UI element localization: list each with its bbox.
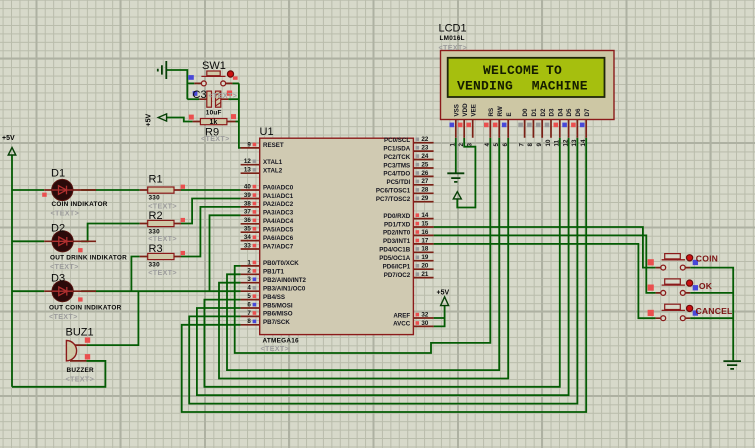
button OK <box>661 279 693 295</box>
svg-text:+5V: +5V <box>146 114 153 127</box>
svg-text:D2: D2 <box>51 223 65 235</box>
svg-text:29: 29 <box>421 195 428 202</box>
svg-text:XTAL2: XTAL2 <box>263 168 283 175</box>
svg-text:38: 38 <box>244 200 251 207</box>
resistor R1 <box>148 187 174 193</box>
svg-text:30: 30 <box>421 320 428 327</box>
svg-text:8: 8 <box>247 318 251 325</box>
buzzer BUZ1 <box>66 341 76 361</box>
microcontroller U1 body <box>260 138 414 334</box>
LED D1 <box>52 179 73 200</box>
svg-text:E: E <box>506 112 513 116</box>
pin state indicators: buttons <box>648 259 654 265</box>
wire: C3 right to reset node <box>228 98 239 100</box>
svg-text:9: 9 <box>536 143 543 147</box>
CANCEL button pin stubs <box>656 317 691 319</box>
svg-text:PC3/TMS: PC3/TMS <box>383 162 410 169</box>
svg-text:7: 7 <box>518 143 525 147</box>
svg-text:<TEXT>: <TEXT> <box>51 209 80 218</box>
svg-text:15: 15 <box>421 220 428 227</box>
svg-text:D1: D1 <box>531 108 538 116</box>
wire: D3 cathode row to U1 pin 4 <box>81 290 240 292</box>
svg-text:PB1/T1: PB1/T1 <box>263 269 285 276</box>
svg-text:D3: D3 <box>51 273 65 285</box>
svg-text:16: 16 <box>421 229 428 236</box>
svg-text:PB2/AIN0/INT2: PB2/AIN0/INT2 <box>263 277 307 284</box>
svg-text:VDD: VDD <box>462 103 469 117</box>
svg-text:PD3/INT1: PD3/INT1 <box>383 238 411 245</box>
svg-text:AVCC: AVCC <box>393 321 411 328</box>
svg-text:SW1: SW1 <box>202 60 226 72</box>
svg-text:2: 2 <box>458 143 465 147</box>
pin state indicators: wires top area <box>188 75 194 80</box>
wire: U1 PB0 pin1 to bus <box>235 138 491 353</box>
svg-text:28: 28 <box>421 187 428 194</box>
svg-text:1: 1 <box>247 259 251 266</box>
svg-text:9: 9 <box>247 141 251 148</box>
wire: R9 right to reset node <box>236 121 239 123</box>
svg-text:<TEXT>: <TEXT> <box>261 344 290 353</box>
svg-text:LCD1: LCD1 <box>439 23 467 35</box>
svg-text:<TEXT>: <TEXT> <box>148 234 177 243</box>
svg-text:20: 20 <box>421 263 428 270</box>
svg-text:10uF: 10uF <box>206 109 222 116</box>
svg-text:13: 13 <box>571 139 578 146</box>
COIN button pin stubs <box>656 267 691 269</box>
svg-text:PA5/ADC5: PA5/ADC5 <box>263 227 294 234</box>
svg-text:D3: D3 <box>549 108 556 116</box>
wire: U1 PD2 pin16 to OK button <box>434 235 656 293</box>
pin state indicators: LED rows <box>42 193 47 197</box>
svg-text:11: 11 <box>554 139 561 146</box>
svg-text:PC4/TDO: PC4/TDO <box>383 171 410 178</box>
svg-text:RESET: RESET <box>263 142 284 149</box>
wire: R1 to U1 pin 40 <box>181 189 241 191</box>
svg-text:<TEXT>: <TEXT> <box>49 312 78 321</box>
svg-text:24: 24 <box>421 153 428 160</box>
svg-text:6: 6 <box>502 143 509 147</box>
svg-text:VEE: VEE <box>470 104 477 116</box>
svg-text:PD6/ICP1: PD6/ICP1 <box>383 264 411 271</box>
svg-text:VSS: VSS <box>453 104 460 116</box>
wire: buttons right rail to ground <box>690 268 733 361</box>
svg-text:19: 19 <box>421 254 428 261</box>
switch SW1 <box>201 71 233 86</box>
wire: SW1 right contact to reset node <box>232 82 239 84</box>
svg-text:COIN INDIKATOR: COIN INDIKATOR <box>52 201 108 208</box>
svg-text:C3: C3 <box>193 89 207 101</box>
C3 pin stubs <box>199 98 228 100</box>
power +5V (below LCD, VDD) <box>453 192 461 199</box>
U1 left pin stubs <box>241 148 260 325</box>
svg-text:23: 23 <box>421 145 428 152</box>
svg-text:PA4/ADC4: PA4/ADC4 <box>263 218 294 225</box>
svg-text:<TEXT>: <TEXT> <box>201 134 230 143</box>
svg-text:37: 37 <box>244 209 251 216</box>
power +5V (left of R9, pointing left) <box>158 114 166 121</box>
D3 pin stubs <box>44 290 96 292</box>
svg-text:17: 17 <box>421 237 428 244</box>
svg-text:PB7/SCK: PB7/SCK <box>263 319 290 326</box>
svg-text:R1: R1 <box>149 173 163 185</box>
power +5V (AVCC/AREF) <box>441 297 449 306</box>
LCD screen <box>448 58 605 97</box>
svg-text:D2: D2 <box>540 108 547 116</box>
wire: U1 PB4 pin5 to bus to LCD D4 <box>204 138 559 387</box>
svg-text:14: 14 <box>421 212 428 219</box>
svg-text:33: 33 <box>244 242 251 249</box>
LCD pin numbers and state squares <box>450 123 588 147</box>
U1 pin numbers and state squares (right side) <box>416 136 429 327</box>
OK button pin stubs <box>656 292 691 294</box>
svg-text:39: 39 <box>244 192 251 199</box>
svg-text:32: 32 <box>421 311 428 318</box>
svg-text:3: 3 <box>467 143 474 147</box>
svg-text:VENDING: VENDING <box>457 79 513 94</box>
svg-text:34: 34 <box>244 234 251 241</box>
svg-text:D0: D0 <box>522 108 529 116</box>
svg-text:22: 22 <box>421 136 428 143</box>
button COIN <box>661 254 693 270</box>
svg-text:36: 36 <box>244 217 251 224</box>
wire: rail branch to D1 anode <box>12 189 44 191</box>
buzzer pin stubs <box>70 345 86 361</box>
wire: LCD VDD pin2 to +5V arrow <box>457 138 475 208</box>
D1 pin stubs <box>44 189 96 191</box>
svg-text:<TEXT>: <TEXT> <box>439 43 468 52</box>
svg-text:U1: U1 <box>260 126 274 138</box>
svg-text:OUT COIN INDIKATOR: OUT COIN INDIKATOR <box>49 304 122 311</box>
svg-text:CANCEL: CANCEL <box>696 306 733 316</box>
wire: rail branch to D3 anode <box>12 290 44 292</box>
wire: +5V arrow to R9 left <box>167 118 193 122</box>
svg-text:12: 12 <box>244 158 251 165</box>
wire: reset node vertical to U1 pin 9 <box>239 83 241 147</box>
svg-text:D1: D1 <box>51 168 65 180</box>
svg-text:PA2/ADC2: PA2/ADC2 <box>263 201 294 208</box>
svg-text:18: 18 <box>421 246 428 253</box>
resistor R2 <box>148 220 174 226</box>
svg-text:AREF: AREF <box>393 312 410 319</box>
U1 pin numbers and state squares (left side) <box>244 141 256 325</box>
svg-text:LM016L: LM016L <box>440 35 465 42</box>
button CANCEL <box>661 304 693 320</box>
wire: AVCC to +5V <box>434 306 445 327</box>
svg-text:COIN: COIN <box>696 254 718 264</box>
wire: R3 right jog up to U1 pin 38 <box>181 207 241 257</box>
wire: buzzer bottom pin <box>86 360 105 362</box>
D2 pin stubs <box>44 240 96 242</box>
svg-text:PD0/RXD: PD0/RXD <box>383 213 410 220</box>
svg-text:1: 1 <box>450 143 457 147</box>
wire: D1 cathode to R1 <box>81 189 140 191</box>
svg-text:27: 27 <box>421 178 428 185</box>
svg-text:PB4/SS: PB4/SS <box>263 294 285 301</box>
LED D2 <box>52 231 73 252</box>
svg-text:21: 21 <box>421 271 428 278</box>
svg-text:PA6/ADC6: PA6/ADC6 <box>263 235 294 242</box>
R3 pin stubs <box>140 256 181 258</box>
capacitor C3 <box>207 91 221 107</box>
svg-text:R2: R2 <box>149 210 163 222</box>
resistor R9 <box>200 119 227 127</box>
svg-text:MACHINE: MACHINE <box>532 79 588 94</box>
svg-text:25: 25 <box>421 161 428 168</box>
LCD pin labels (rotated) <box>453 103 590 117</box>
svg-text:40: 40 <box>244 183 251 190</box>
wire: +5V left rail vertical <box>11 155 13 387</box>
wire: U1 PB2 pin3 to bus to LCD E <box>219 138 508 379</box>
svg-text:D7: D7 <box>584 108 591 116</box>
svg-text:PB6/MISO: PB6/MISO <box>263 311 293 318</box>
wire: AREF to +5V <box>434 317 445 319</box>
svg-text:<TEXT>: <TEXT> <box>66 374 95 383</box>
svg-text:D4: D4 <box>557 108 564 116</box>
svg-text:2: 2 <box>247 268 251 275</box>
wire: U1 PD3 pin17 to CANCEL button <box>434 244 656 318</box>
svg-text:PA3/ADC3: PA3/ADC3 <box>263 210 294 217</box>
SW1 pin stubs <box>194 82 232 84</box>
svg-text:OUT DRINK INDIKATOR: OUT DRINK INDIKATOR <box>50 254 127 261</box>
svg-text:TO: TO <box>546 63 562 78</box>
wire: R3 left riser down to D3 row <box>131 257 139 292</box>
wire: CANCEL right to rail <box>690 317 733 319</box>
wire: buzzer top pin riser to D3 row <box>86 291 138 345</box>
svg-text:3: 3 <box>247 276 251 283</box>
svg-text:12: 12 <box>562 139 569 146</box>
U1 pin labels <box>263 142 307 326</box>
wire: U1 PB7 pin8 to bus to LCD D7 <box>182 138 587 412</box>
svg-text:PD2/INT0: PD2/INT0 <box>383 230 411 237</box>
wire: U1 PD1 pin15 to COIN button <box>434 227 656 268</box>
svg-text:XTAL1: XTAL1 <box>263 159 283 166</box>
U1 right pin stubs <box>413 143 433 327</box>
svg-text:PC2/TCK: PC2/TCK <box>384 154 411 161</box>
LCD LCD1 body <box>441 51 615 120</box>
svg-text:14: 14 <box>580 139 587 146</box>
svg-text:4: 4 <box>484 143 491 147</box>
ground (bottom right, buttons) <box>723 361 741 369</box>
wire: OK right to rail <box>690 292 733 294</box>
svg-text:10: 10 <box>545 139 552 146</box>
wire: rail bottom run to buzzer <box>12 361 105 387</box>
svg-text:35: 35 <box>244 226 251 233</box>
svg-text:OK: OK <box>699 281 713 291</box>
wire: U1 PB1 pin2 to bus to LCD RW <box>227 138 499 370</box>
svg-text:PD4/OC1B: PD4/OC1B <box>379 247 410 254</box>
svg-text:PD7/OC2: PD7/OC2 <box>384 272 411 279</box>
svg-text:4: 4 <box>247 285 251 292</box>
svg-text:+5V: +5V <box>437 290 450 297</box>
svg-text:D5: D5 <box>566 108 573 116</box>
svg-text:BUZ1: BUZ1 <box>66 327 94 339</box>
svg-text:7: 7 <box>247 310 251 317</box>
resistor R3 <box>148 253 174 259</box>
svg-text:D6: D6 <box>575 108 582 116</box>
wire: link U1 pin 37 to D3 row <box>210 215 241 291</box>
svg-text:<TEXT>: <TEXT> <box>148 268 177 277</box>
svg-text:26: 26 <box>421 170 428 177</box>
svg-text:PC6/TOSC1: PC6/TOSC1 <box>376 188 411 195</box>
svg-text:PA0/ADC0: PA0/ADC0 <box>263 184 294 191</box>
svg-text:PC5/TDI: PC5/TDI <box>386 179 410 186</box>
svg-text:PB0/T0/XCK: PB0/T0/XCK <box>263 260 299 267</box>
svg-text:PB3/AIN1/OC0: PB3/AIN1/OC0 <box>263 286 306 293</box>
svg-text:R3: R3 <box>149 243 163 255</box>
svg-text:RW: RW <box>497 106 504 116</box>
svg-text:PA7/ADC7: PA7/ADC7 <box>263 243 294 250</box>
wire: left node to SW1 contact <box>187 82 194 84</box>
svg-text:PC0/SCL: PC0/SCL <box>384 137 410 144</box>
ground (top left, sideways) <box>158 61 167 79</box>
wire: U1 PB6 pin7 to bus to LCD D6 <box>189 138 577 404</box>
power +5V (far left) <box>8 148 16 156</box>
svg-text:BUZZER: BUZZER <box>67 367 95 374</box>
svg-text:PC7/TOSC2: PC7/TOSC2 <box>376 196 411 203</box>
LED D3 <box>52 281 73 302</box>
svg-text:<TEXT>: <TEXT> <box>50 262 79 271</box>
wire: left node to C3 <box>187 98 199 100</box>
wire: LCD VSS pin1 to ground <box>455 138 457 173</box>
wire: rail branch to D2 anode <box>12 240 44 242</box>
svg-text:PA1/ADC1: PA1/ADC1 <box>263 193 294 200</box>
svg-text:PC1/SDA: PC1/SDA <box>383 145 410 152</box>
svg-text:<TEXT>: <TEXT> <box>209 91 238 100</box>
svg-text:8: 8 <box>527 143 534 147</box>
svg-text:1k: 1k <box>210 119 218 126</box>
LCD pin stubs <box>456 120 586 138</box>
R1 pin stubs <box>140 189 181 191</box>
wire: D2 cathode riser to R2 row <box>81 224 140 242</box>
svg-text:13: 13 <box>244 167 251 174</box>
wire: ground to SW1/C3 left node <box>166 70 187 99</box>
svg-text:+5V: +5V <box>2 135 15 142</box>
svg-text:PB5/MOSI: PB5/MOSI <box>263 302 293 309</box>
R2 pin stubs <box>140 223 181 225</box>
ground (below LCD pin1) <box>447 173 464 182</box>
svg-text:RS: RS <box>488 108 495 117</box>
wire: U1 PB5 pin6 to bus to LCD D5 <box>197 138 569 395</box>
pin state indicators: buzzer <box>85 337 90 342</box>
svg-text:PD5/OC1A: PD5/OC1A <box>379 255 410 262</box>
svg-text:5: 5 <box>493 143 500 147</box>
wire: R2 jog up to U1 pin 39 <box>181 199 241 224</box>
R9 pin stubs <box>193 121 236 123</box>
svg-text:5: 5 <box>247 293 251 300</box>
svg-text:WELCOME: WELCOME <box>483 63 539 78</box>
svg-text:PD1/TXD: PD1/TXD <box>384 221 411 228</box>
svg-text:6: 6 <box>247 301 251 308</box>
